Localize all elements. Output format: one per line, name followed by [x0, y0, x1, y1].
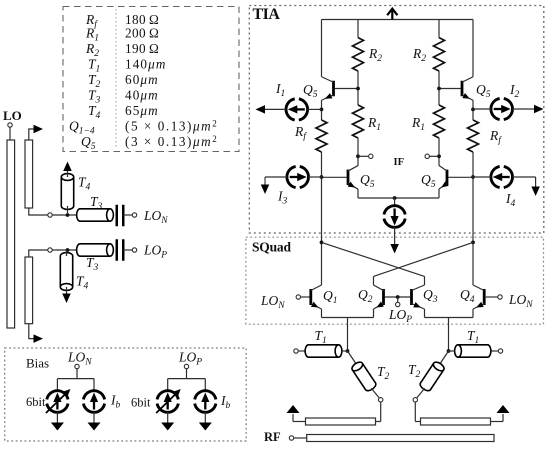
svg-text:60μm: 60μm [125, 72, 159, 87]
svg-text:6bit: 6bit [131, 396, 151, 410]
svg-text:IF: IF [394, 157, 405, 168]
svg-text:140μm: 140μm [125, 57, 166, 72]
svg-text:SQuad: SQuad [252, 240, 291, 255]
svg-text:Bias: Bias [26, 356, 49, 371]
svg-text:190 Ω: 190 Ω [125, 41, 159, 56]
svg-text:LO: LO [3, 108, 22, 123]
svg-text:65μm: 65μm [125, 103, 159, 118]
svg-text:(5 × 0.13)μm2: (5 × 0.13)μm2 [125, 119, 218, 134]
svg-text:200 Ω: 200 Ω [125, 26, 159, 41]
svg-text:TIA: TIA [253, 6, 281, 23]
svg-text:(3 × 0.13)μm2: (3 × 0.13)μm2 [125, 134, 218, 149]
svg-text:RF: RF [264, 430, 281, 444]
svg-text:6bit: 6bit [26, 395, 46, 409]
svg-text:40μm: 40μm [125, 88, 159, 103]
